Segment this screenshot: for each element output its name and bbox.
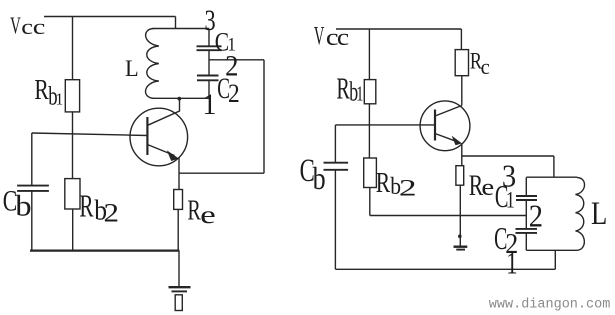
svg-text:2: 2 xyxy=(228,80,240,109)
svg-text:L: L xyxy=(125,56,139,82)
svg-text:R: R xyxy=(34,74,48,106)
svg-text:1: 1 xyxy=(506,188,515,212)
svg-text:2: 2 xyxy=(399,174,417,201)
svg-text:1: 1 xyxy=(356,82,363,105)
svg-text:c: c xyxy=(481,54,490,79)
svg-text:c: c xyxy=(33,14,46,39)
svg-text:1: 1 xyxy=(202,89,216,122)
svg-text:e: e xyxy=(200,201,216,229)
svg-text:2: 2 xyxy=(529,198,543,234)
svg-text:2: 2 xyxy=(104,199,120,228)
svg-text:www.diangon.com: www.diangon.com xyxy=(489,298,611,313)
svg-text:L: L xyxy=(591,196,607,231)
svg-text:1: 1 xyxy=(56,91,64,109)
svg-text:b: b xyxy=(15,189,31,222)
svg-text:R: R xyxy=(376,166,390,199)
svg-text:c: c xyxy=(337,23,349,50)
svg-text:e: e xyxy=(481,173,494,200)
svg-text:1: 1 xyxy=(506,246,517,280)
svg-text:R: R xyxy=(336,72,350,106)
svg-text:b: b xyxy=(313,161,326,196)
svg-text:c: c xyxy=(21,15,33,40)
svg-text:R: R xyxy=(79,188,94,223)
svg-text:V: V xyxy=(10,13,21,40)
svg-text:V: V xyxy=(314,21,325,51)
